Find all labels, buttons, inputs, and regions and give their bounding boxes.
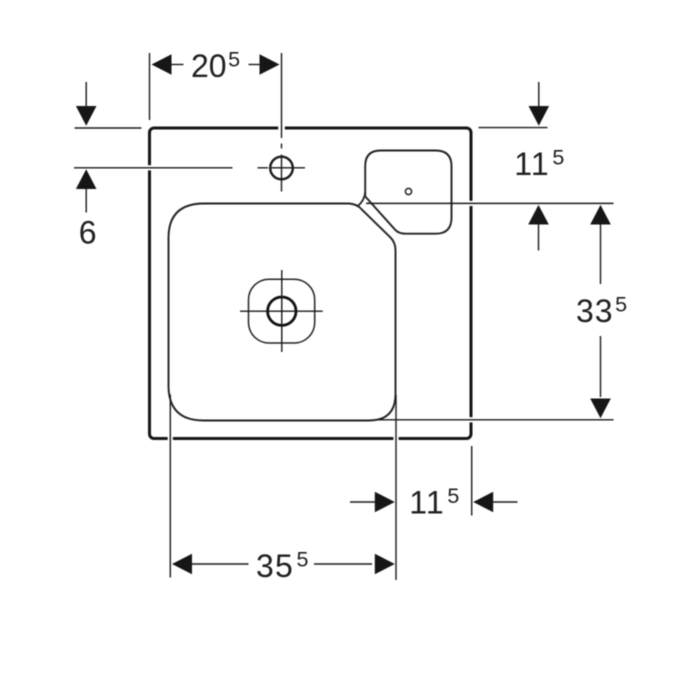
dim 11.5 top: lower arrow (pointing up): [528, 205, 549, 225]
dim 20.5: left extension line: [149, 53, 151, 120]
drain horizontal centerline: [240, 310, 323, 312]
outer ceramic rim (square outline): [150, 128, 472, 439]
basin-bottom extension line to right: [377, 419, 614, 421]
dim 6: bottom arrow (pointing up): [76, 169, 97, 189]
svg-text:335: 335: [576, 293, 628, 330]
rim-right extension line (below rim): [471, 446, 473, 516]
dim 35.5: right arrow: [314, 563, 372, 565]
dim 20.5: left arrow: [152, 54, 172, 75]
dim 6: rim-top extension line: [75, 127, 142, 129]
drain hole circle: [268, 297, 296, 325]
dim 33.5: top arrow (pointing up): [590, 205, 611, 225]
svg-text:6: 6: [79, 215, 97, 251]
tap hole vertical centerline (also ext line for dim 20.5): [281, 53, 283, 192]
dim 6: top arrow (pointing down): [85, 82, 87, 108]
dim 35.5: left arrow: [172, 554, 192, 575]
tap hole horizontal centerline (also ref line for dim 6): [74, 167, 305, 169]
svg-text:355: 355: [256, 548, 310, 585]
dim 11.5 top: upper arrow (pointing down): [538, 82, 540, 107]
tap shelf (rounded square, top right): [365, 151, 451, 234]
inner basin bowl outline: [169, 204, 396, 421]
small overflow dot on shelf: [405, 188, 411, 194]
breaks in rim outline where centerlines cross: [147, 126, 474, 441]
dim 20.5: right arrow: [249, 64, 261, 66]
dim 11.5 top: rim-top extension line to right: [479, 127, 548, 129]
drain vertical centerline: [281, 270, 283, 352]
dim 11.5 bottom: right arrow (pointing left): [473, 492, 493, 513]
tap hole circle: [270, 157, 293, 180]
svg-text:115: 115: [514, 146, 565, 183]
basin-top extension line (ref for 11.5 top and 33.5): [366, 202, 614, 204]
svg-text:115: 115: [409, 484, 460, 521]
basin-right extension line (down): [395, 395, 397, 580]
dim 11.5 bottom: left arrow (pointing right): [350, 501, 377, 503]
dim 33.5: bottom arrow (pointing down): [600, 336, 602, 397]
dim 35.5: left extension line: [169, 395, 171, 578]
drain recess squircle: [249, 279, 315, 343]
svg-text:205: 205: [191, 48, 240, 85]
small curl where shelf edge meets basin corner: [358, 192, 365, 206]
